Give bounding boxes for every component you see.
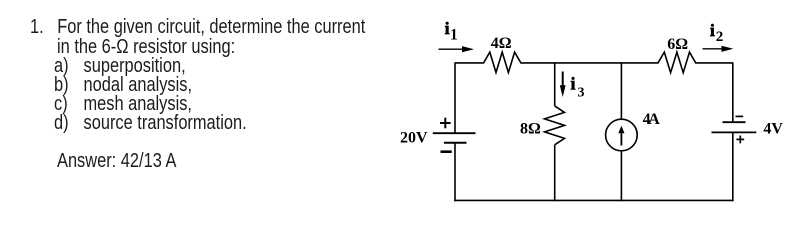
wire top with resistor R 4ohm and resistor R 6ohm zigzags: [455, 52, 733, 73]
list item b: [54, 75, 192, 95]
list item d: [54, 113, 247, 133]
wire current-source branch top: [620, 63, 622, 119]
svg-text:4V: 4V: [763, 121, 783, 138]
battery V1 20V plates: [433, 133, 476, 143]
battery V2 4V plates: [712, 122, 757, 132]
problem text line 1: [30, 17, 365, 37]
svg-text:2: 2: [716, 29, 724, 45]
resistor R 8ohm zigzag: [545, 106, 565, 145]
svg-text:8Ω: 8Ω: [520, 120, 541, 137]
battery V2 minus sign: [736, 115, 744, 117]
svg-text:i: i: [445, 19, 450, 38]
battery V2 plus sign: [736, 136, 744, 144]
list item c: [54, 94, 192, 114]
current arrow i3: [560, 72, 566, 98]
wire right bottom: [732, 132, 734, 201]
current arrow i2: [703, 46, 734, 52]
wire left bottom: [454, 143, 456, 201]
svg-text:4A: 4A: [643, 111, 661, 128]
answer line: [57, 151, 176, 171]
current source arrow: [618, 126, 624, 146]
current source I1 4A circle: [606, 119, 638, 151]
wire middle branch top (to 8 ohm): [554, 63, 556, 106]
svg-text:6Ω: 6Ω: [667, 36, 688, 53]
svg-text:20V: 20V: [400, 130, 428, 147]
battery V1 minus sign: [441, 150, 452, 153]
wire current-source branch bottom: [620, 151, 622, 201]
svg-text:4Ω: 4Ω: [491, 35, 512, 52]
wire right top (to 4V source): [732, 62, 734, 122]
svg-text:1: 1: [450, 27, 458, 44]
battery V1 plus sign: [440, 118, 451, 129]
svg-text:i: i: [710, 21, 715, 40]
current arrow i1: [439, 46, 475, 52]
problem text line 2: [57, 37, 235, 57]
wire left top (to 20V source): [454, 62, 456, 133]
svg-text:i: i: [571, 74, 576, 94]
wire middle branch bottom: [554, 145, 556, 201]
wire bottom: [454, 199, 733, 201]
list item a: [54, 56, 186, 76]
svg-text:3: 3: [578, 86, 585, 101]
